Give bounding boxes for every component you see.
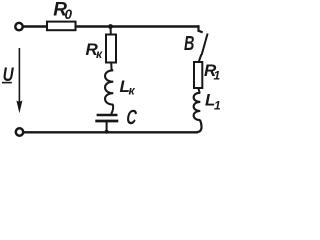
wire Lk to C bbox=[111, 104, 113, 114]
wire L1 to bottom corner bbox=[197, 120, 202, 132]
wire bottom horizontal bbox=[23, 131, 198, 133]
svg-text:В: В bbox=[184, 32, 194, 55]
svg-text:C: C bbox=[126, 105, 138, 128]
wire to Rk bbox=[110, 27, 112, 35]
wire top horizontal bbox=[23, 25, 199, 27]
wire switch to R1 bbox=[199, 55, 202, 63]
wire corner top-right down bbox=[199, 25, 203, 32]
terminal bottom-left bbox=[16, 128, 23, 135]
terminal top-left bbox=[15, 23, 22, 30]
arrow U line bbox=[18, 48, 20, 104]
svg-text:0: 0 bbox=[65, 7, 73, 22]
svg-text:1: 1 bbox=[214, 69, 221, 83]
capacitor C plate top bbox=[97, 114, 118, 117]
wire R1 to L1 bbox=[198, 88, 199, 93]
svg-text:к: к bbox=[129, 84, 136, 98]
resistor R0 bbox=[47, 22, 76, 31]
inductor Lk bbox=[105, 70, 113, 104]
svg-text:к: к bbox=[96, 47, 103, 61]
inductor L1 bbox=[194, 93, 201, 120]
wire Rk to Lk bbox=[110, 63, 112, 71]
svg-text:1: 1 bbox=[214, 99, 221, 113]
node junction top bbox=[108, 24, 113, 29]
wire C to bottom bus bbox=[106, 122, 108, 132]
resistor Rk bbox=[106, 35, 116, 63]
arrow U head bbox=[16, 101, 22, 114]
switch B blade bbox=[202, 34, 208, 56]
underline of U bbox=[2, 82, 12, 84]
resistor R1 bbox=[194, 62, 202, 88]
capacitor C plate bottom bbox=[95, 120, 118, 123]
node junction bottom bbox=[105, 130, 109, 134]
